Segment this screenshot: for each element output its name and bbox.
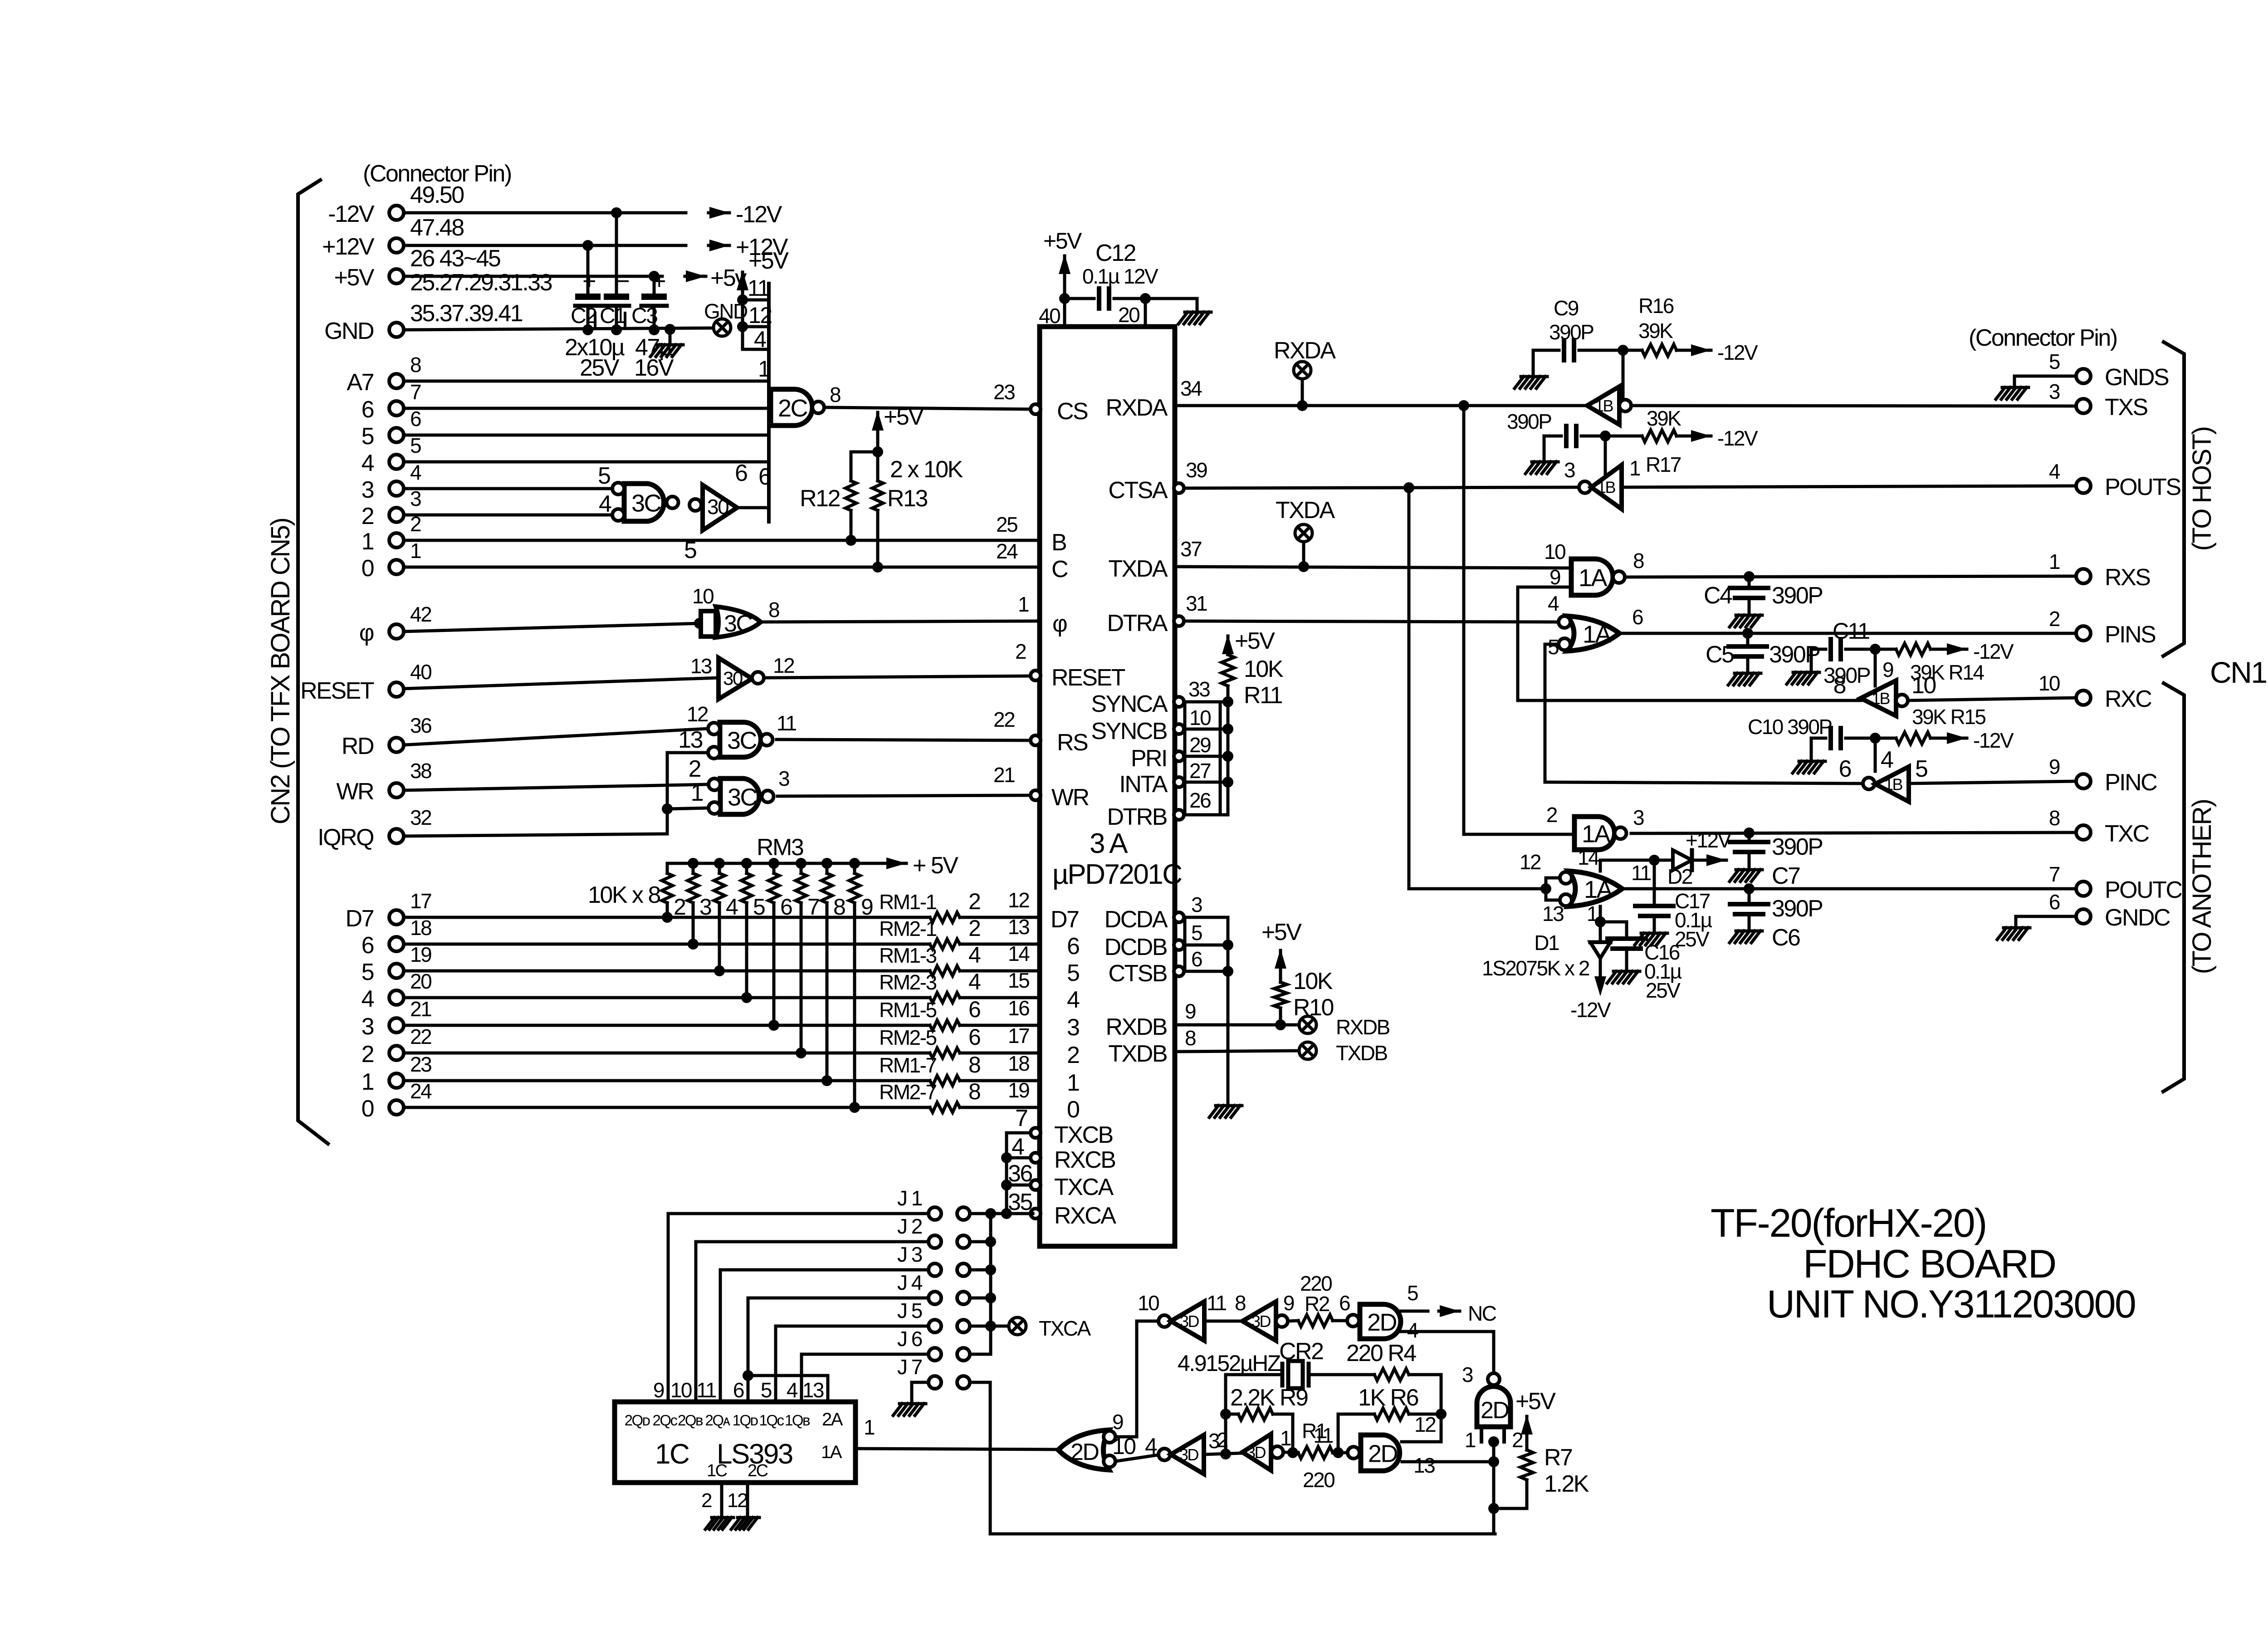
svg-text:220 R4: 220 R4 — [1346, 1340, 1416, 1366]
svg-text:2Qʙ: 2Qʙ — [678, 1412, 703, 1429]
svg-text:2Qᴅ: 2Qᴅ — [625, 1412, 650, 1429]
svg-text:R17: R17 — [1646, 453, 1681, 476]
svg-text:RM2-5: RM2-5 — [879, 1026, 936, 1049]
svg-text:7: 7 — [2049, 862, 2060, 886]
svg-text:220: 220 — [1303, 1468, 1334, 1492]
capacitor C1 — [615, 213, 618, 294]
junction RM3 pin2 / D7 — [662, 912, 673, 923]
svg-text:+5V: +5V — [1261, 919, 1302, 945]
junction C6/POUTC — [1744, 883, 1755, 894]
svg-text:J 5: J 5 — [897, 1299, 922, 1322]
capacitor C9 — [1564, 340, 1574, 360]
wire R13 to C — [876, 510, 880, 567]
svg-text:2: 2 — [1546, 803, 1557, 827]
junction R11 pin — [1222, 777, 1233, 788]
terminal CN2 A7 — [389, 374, 404, 388]
svg-text:19: 19 — [410, 943, 431, 966]
terminal CN2 6 — [389, 937, 404, 951]
wire CTSB — [1184, 970, 1228, 973]
wire RM1-5 to uPD7201C — [960, 1024, 1040, 1027]
svg-text:FDHC BOARD: FDHC BOARD — [1803, 1241, 2056, 1286]
wire CS from 2C to uPD7201C — [827, 407, 1033, 409]
terminal CN1 GNDS — [2076, 369, 2091, 383]
svg-text:31: 31 — [1186, 592, 1207, 615]
wire DTRB — [1184, 813, 1228, 817]
junction R11 pin — [1222, 751, 1233, 762]
svg-text:42: 42 — [410, 602, 431, 626]
svg-text:+12V: +12V — [1686, 828, 1732, 852]
svg-text:+12V: +12V — [322, 234, 375, 260]
wire pin1 — [1599, 906, 1602, 922]
svg-text:RXCA: RXCA — [1054, 1203, 1116, 1229]
wire to R12 — [851, 452, 878, 481]
wire to C16 — [1600, 922, 1627, 939]
svg-text:-12V: -12V — [328, 201, 375, 227]
svg-text:1Qʙ: 1Qʙ — [785, 1412, 810, 1429]
svg-text:6: 6 — [735, 460, 747, 486]
terminal CN1 PINS — [2076, 626, 2091, 641]
svg-text:1B: 1B — [1884, 775, 1903, 794]
wire gate WR pin1 tap — [667, 808, 709, 809]
arrow +12V — [709, 244, 729, 247]
junction J bus — [985, 1321, 996, 1332]
nor gate 1A (PINS) — [1567, 616, 1619, 651]
pin box 26 — [1185, 782, 1220, 815]
pin bubble uPD7201C right — [1174, 483, 1184, 493]
junction R11 pin — [1222, 724, 1233, 734]
svg-text:2: 2 — [1512, 1428, 1523, 1452]
svg-text:C5: C5 — [1706, 641, 1734, 668]
wire R9 to 3D out — [1273, 1414, 1293, 1453]
nand gate 2D (osc) — [1348, 1447, 1359, 1459]
svg-text:1: 1 — [691, 780, 703, 806]
svg-text:390P: 390P — [1772, 583, 1822, 609]
arrow -12V R14 — [1946, 648, 1967, 651]
svg-text:-12V: -12V — [1973, 640, 2014, 663]
svg-text:4: 4 — [1548, 592, 1559, 615]
svg-text:21: 21 — [993, 763, 1015, 787]
junction C5/PINS — [1742, 628, 1753, 639]
inverter 1B (POUTS) — [1579, 481, 1591, 493]
arrow -12V R16 — [1690, 349, 1711, 352]
svg-text:3D: 3D — [1180, 1312, 1199, 1331]
junction J1 bus — [985, 1208, 996, 1219]
wire PINS — [1619, 632, 2077, 635]
svg-text:6: 6 — [758, 464, 771, 490]
svg-text:2: 2 — [2049, 607, 2060, 631]
svg-text:33: 33 — [1188, 677, 1210, 701]
svg-text:18: 18 — [410, 916, 431, 940]
svg-text:47.48: 47.48 — [410, 215, 464, 241]
wire C11 to ground — [1810, 649, 1813, 671]
svg-text:TXCA: TXCA — [1039, 1317, 1091, 1340]
svg-text:21: 21 — [410, 997, 431, 1021]
svg-text:RESET: RESET — [300, 678, 374, 704]
svg-text:RM1-7: RM1-7 — [879, 1053, 936, 1077]
svg-text:6: 6 — [362, 397, 374, 423]
wire 2D out down — [1492, 1442, 1496, 1534]
svg-text:40: 40 — [410, 660, 431, 684]
wire CTSA to POUTC gate — [1409, 488, 1546, 889]
svg-text:+5V: +5V — [1043, 228, 1082, 254]
svg-text:4.9152µHZ: 4.9152µHZ — [1178, 1351, 1281, 1376]
svg-text:1: 1 — [362, 529, 374, 555]
wire 2Qa to J4 — [748, 1298, 929, 1402]
wire RM1-3 to uPD7201C — [960, 969, 1040, 973]
svg-text:3C: 3C — [724, 611, 752, 637]
svg-text:-12V: -12V — [1717, 426, 1758, 450]
svg-text:8: 8 — [768, 598, 779, 622]
pin bubble uPD7201C left — [1031, 1153, 1041, 1163]
ground GNDC — [1997, 928, 2030, 940]
terminal CN2 RESET — [389, 682, 404, 697]
wire pin14 to D2 — [1600, 860, 1673, 871]
nand gate 3C (WR) — [720, 778, 759, 814]
wire TXDA — [1176, 567, 1571, 568]
junction J bus — [985, 1264, 996, 1275]
pin bubble uPD7201C right — [1174, 616, 1184, 626]
junction C10/R15 — [1870, 733, 1881, 744]
resistor R4 220 — [1374, 1369, 1409, 1381]
svg-text:+5V: +5V — [1515, 1388, 1556, 1415]
junction RM3 bus pin3 — [688, 858, 699, 869]
resistor RM2-5 — [930, 1048, 960, 1058]
svg-text:39K: 39K — [1638, 319, 1673, 343]
wire A4 to bus — [404, 460, 769, 464]
wire RM1-1 to uPD7201C — [960, 916, 1040, 919]
wire gate pin13 — [1402, 1460, 1494, 1464]
junction GND/earth — [665, 324, 675, 335]
svg-text:390P: 390P — [1507, 410, 1551, 433]
pin bubble uPD7201C left — [1031, 1180, 1041, 1190]
svg-text:3 A: 3 A — [1090, 828, 1128, 859]
wire pin 11 stub — [743, 299, 769, 302]
svg-text:12: 12 — [1520, 850, 1541, 874]
wire +12V rail — [404, 244, 686, 247]
wire DCDA chain to ground — [1184, 917, 1228, 1103]
terminal CN2 -12V — [389, 206, 404, 220]
svg-text:C3: C3 — [631, 304, 657, 328]
svg-text:1C: 1C — [707, 1461, 727, 1480]
wire J6 to bus — [970, 1353, 991, 1356]
arrow -12V — [709, 211, 729, 215]
terminal CN2 2 — [389, 508, 404, 522]
wire TXDA indicator stem — [1302, 542, 1305, 567]
indicator RXDB — [1299, 1016, 1316, 1033]
junction R13/C — [872, 562, 883, 573]
svg-text:C11: C11 — [1833, 618, 1869, 644]
svg-text:25: 25 — [996, 513, 1017, 536]
wire 6 line — [404, 943, 930, 946]
terminal CN2 2 — [389, 1046, 404, 1060]
wire TXS — [1631, 406, 2076, 406]
svg-text:30: 30 — [707, 495, 728, 519]
indicator TXDA — [1295, 524, 1312, 542]
svg-text:6: 6 — [968, 997, 980, 1022]
svg-text:11: 11 — [1207, 1291, 1227, 1315]
svg-text:−: − — [616, 268, 629, 294]
terminal CN2 GND — [389, 323, 404, 337]
svg-text:CS: CS — [1057, 398, 1088, 425]
IC 1C LS393 body — [615, 1402, 855, 1483]
nand gate 1A (RXS) — [1571, 559, 1613, 595]
svg-text:2C: 2C — [778, 395, 807, 422]
indicator TXDB — [1299, 1042, 1316, 1059]
terminal CN1 POUTC — [2076, 881, 2091, 896]
resistor R12 — [846, 481, 856, 510]
svg-text:26: 26 — [1189, 788, 1211, 812]
inverter 1B (PINC) — [1863, 778, 1875, 789]
wire R12 to B — [850, 510, 853, 540]
svg-text:2: 2 — [689, 756, 701, 782]
svg-text:-12V: -12V — [1570, 998, 1611, 1022]
svg-text:5: 5 — [2049, 350, 2060, 373]
junction C11/R14 — [1870, 644, 1881, 655]
jumper J4 pad B — [957, 1292, 970, 1304]
capacitor C3 — [653, 276, 656, 294]
svg-text:10: 10 — [1911, 672, 1936, 699]
svg-text:TXC: TXC — [2105, 821, 2149, 847]
svg-text:10K: 10K — [1293, 968, 1333, 994]
svg-text:20: 20 — [1118, 303, 1139, 327]
junction IQRQ/WR gate — [662, 803, 673, 814]
svg-text:9: 9 — [1112, 1410, 1123, 1434]
wire POUTC input bracket — [1545, 878, 1548, 900]
svg-text:9: 9 — [653, 1378, 664, 1402]
ground C12 — [1178, 312, 1211, 324]
junction DCDB — [1222, 940, 1233, 950]
terminal CN2 WR — [389, 783, 404, 798]
wire R6 left — [1338, 1414, 1374, 1453]
wire node A vertical — [1224, 1375, 1227, 1454]
svg-text:C2: C2 — [571, 304, 596, 328]
svg-text:39K R15: 39K R15 — [1912, 705, 1985, 729]
ground DCDA chain — [1209, 1106, 1242, 1117]
svg-text:DCDA: DCDA — [1105, 906, 1168, 933]
wire pin4 to gate 2D — [1401, 1332, 1494, 1373]
pin bubble uPD7201C right — [1174, 777, 1184, 787]
svg-text:C9: C9 — [1554, 296, 1579, 320]
svg-text:µPD7201C: µPD7201C — [1052, 859, 1182, 890]
resistor R17 39K — [1642, 430, 1677, 442]
svg-text:R12: R12 — [800, 485, 840, 512]
svg-text:TXDB: TXDB — [1108, 1041, 1167, 1067]
svg-text:RXDB: RXDB — [1336, 1015, 1390, 1039]
junction node B / R6 — [1436, 1409, 1447, 1420]
junction pin13 wire — [1488, 1456, 1499, 1467]
svg-text:390P: 390P — [1772, 896, 1822, 922]
wire pin 12 stub — [743, 325, 769, 328]
svg-text:(TO ANOTHER): (TO ANOTHER) — [2187, 800, 2217, 974]
svg-text:6: 6 — [410, 407, 421, 431]
svg-text:3: 3 — [362, 1014, 374, 1040]
nand gate 2D (R7 driver) — [1488, 1373, 1500, 1385]
wire R16 node to 1B — [1622, 350, 1625, 397]
svg-text:17: 17 — [1008, 1024, 1029, 1048]
arrow +5V — [685, 275, 706, 278]
resistor RM3-4 10K — [718, 863, 721, 873]
svg-text:34: 34 — [1180, 377, 1202, 400]
svg-text:1A: 1A — [1584, 876, 1613, 903]
resistor R9 2.2K — [1238, 1408, 1273, 1420]
jumper J5 pad B — [957, 1320, 970, 1332]
svg-text:C12: C12 — [1095, 240, 1135, 266]
wire J pad to bus — [970, 1297, 991, 1300]
wire 3D to R2 — [1288, 1321, 1298, 1321]
svg-text:NC: NC — [1468, 1302, 1496, 1325]
svg-text:30: 30 — [723, 668, 743, 689]
wire 2 line — [404, 1052, 930, 1055]
svg-text:39K: 39K — [1647, 406, 1681, 430]
svg-text:2: 2 — [701, 1489, 712, 1512]
terminal CN2 phi — [389, 624, 404, 639]
svg-text:3: 3 — [1191, 893, 1202, 916]
jumper J3 pad A — [929, 1263, 941, 1276]
resistor R7 1.2K — [1520, 1450, 1533, 1480]
svg-text:8: 8 — [410, 353, 421, 377]
svg-text:10: 10 — [2038, 671, 2060, 695]
svg-text:7: 7 — [410, 380, 421, 404]
wire RESET buffer to uPD7201C pin 2 — [764, 676, 1033, 678]
pin bubble uPD7201C right — [1174, 966, 1184, 976]
pin bubble uPD7201C right — [1174, 940, 1184, 950]
svg-text:CTSA: CTSA — [1108, 477, 1168, 504]
svg-text:+ 5V: + 5V — [913, 852, 958, 879]
junction RXDA / TXC gate — [1458, 400, 1469, 411]
svg-text:32: 32 — [410, 806, 431, 829]
svg-text:1.2K: 1.2K — [1544, 1471, 1589, 1497]
jumper J4 pad A — [929, 1292, 941, 1304]
jumper J5 pad A — [929, 1320, 941, 1332]
svg-text:RM2-1: RM2-1 — [879, 917, 936, 940]
resistor RM3-7 10K — [800, 863, 803, 873]
svg-text:1: 1 — [410, 539, 421, 563]
wire 2D pin10 to 3D out — [1115, 1455, 1158, 1461]
pin box 27 — [1185, 756, 1220, 782]
svg-text:-12V: -12V — [1717, 341, 1758, 364]
svg-text:26 43~45: 26 43~45 — [410, 245, 500, 272]
wire C8 left — [1544, 435, 1561, 438]
svg-text:TXS: TXS — [2105, 394, 2147, 421]
svg-text:14: 14 — [1008, 942, 1030, 965]
svg-text:J 2: J 2 — [897, 1214, 922, 1238]
pin bubble uPD7201C left — [1031, 404, 1041, 414]
terminal CN2 6 — [389, 401, 404, 416]
wire PINC to pin5 — [1545, 782, 1863, 783]
junction R7 return — [1488, 1503, 1499, 1514]
svg-text:J 6: J 6 — [897, 1327, 922, 1351]
svg-text:23: 23 — [993, 380, 1015, 404]
junction RM3 pin7 / D2 — [796, 1048, 807, 1058]
svg-text:5: 5 — [684, 537, 696, 563]
svg-text:GND: GND — [324, 318, 374, 344]
svg-text:9: 9 — [1185, 999, 1196, 1023]
svg-text:1: 1 — [1465, 1428, 1476, 1452]
wire 3D to R1 — [1283, 1452, 1298, 1453]
wire SYNCA — [1184, 700, 1228, 704]
svg-text:3: 3 — [778, 767, 789, 790]
svg-text:37: 37 — [1180, 537, 1202, 561]
pin stubs gate 2D — [1481, 1427, 1504, 1442]
svg-text:INTA: INTA — [1119, 771, 1168, 798]
svg-text:2D: 2D — [1481, 1397, 1509, 1424]
junction C9/R16 — [1618, 345, 1628, 356]
svg-text:1S2075K x 2: 1S2075K x 2 — [1482, 956, 1589, 980]
junction +12V/C2 — [582, 240, 593, 251]
svg-text:4: 4 — [410, 460, 421, 484]
svg-text:2: 2 — [362, 1041, 374, 1067]
svg-text:1: 1 — [1067, 1070, 1079, 1096]
wire phi gate to uPD7201C pin 1 — [761, 621, 1040, 622]
svg-text:10: 10 — [1138, 1291, 1159, 1315]
svg-text:4: 4 — [599, 491, 611, 517]
wire TXDB — [1176, 1051, 1299, 1052]
wire R10 to RXDB — [1279, 1008, 1282, 1025]
svg-text:23: 23 — [410, 1053, 431, 1076]
junction R9 out — [1287, 1447, 1298, 1458]
svg-text:2D: 2D — [1070, 1439, 1099, 1465]
svg-text:6: 6 — [1339, 1291, 1350, 1315]
resistor R11 10K — [1222, 655, 1234, 686]
svg-text:GNDC: GNDC — [2105, 905, 2170, 931]
terminal CN2 IQRQ — [389, 829, 404, 843]
svg-text:2Qᴀ: 2Qᴀ — [705, 1412, 731, 1429]
resistor RM2-1 — [930, 939, 960, 949]
svg-text:1: 1 — [1629, 456, 1640, 480]
svg-text:11: 11 — [748, 275, 769, 301]
svg-text:8: 8 — [1185, 1026, 1196, 1050]
terminal CN1 RXC — [2076, 690, 2091, 705]
svg-text:B: B — [1051, 529, 1066, 556]
wire DTRA — [1184, 621, 1561, 622]
junction RM3 bus pin9 — [849, 858, 860, 869]
terminal CN2 5 — [389, 964, 404, 978]
terminal CN2 D7 — [389, 910, 404, 925]
svg-text:390P: 390P — [1823, 664, 1870, 688]
capacitor C4 — [1730, 588, 1768, 598]
svg-text:17: 17 — [410, 889, 431, 913]
svg-text:4: 4 — [1881, 747, 1893, 773]
junction RM3 pin4 / D5 — [714, 965, 725, 976]
power +5V arrow R10 — [1275, 949, 1286, 969]
wire R15 node to 1B — [1874, 738, 1877, 771]
wire RXDA to TXC gate pin2 — [1464, 406, 1574, 834]
junction RM3 pin5 / D4 — [741, 992, 752, 1003]
svg-text:1B: 1B — [1597, 478, 1616, 497]
arrow +5V RM3 — [885, 862, 906, 865]
arrow NC — [1439, 1310, 1460, 1313]
svg-text:11: 11 — [1313, 1424, 1333, 1447]
power +5V arrow R11 — [1222, 634, 1234, 654]
junction J bus — [985, 1293, 996, 1303]
svg-text:RM1-3: RM1-3 — [879, 944, 936, 967]
wire C11 to R14 — [1846, 648, 1896, 651]
svg-text:25V: 25V — [1646, 979, 1681, 1002]
ground C6 — [1730, 931, 1762, 943]
svg-text:1A: 1A — [1579, 564, 1608, 592]
terminal CN2 0 — [389, 1100, 404, 1115]
svg-text:4: 4 — [1012, 1134, 1024, 1160]
capacitor C10 — [1831, 728, 1841, 748]
wire R14 node to 1B — [1874, 649, 1877, 686]
svg-text:(TO HOST): (TO HOST) — [2187, 427, 2217, 551]
junction RM3 bus pin7 — [796, 858, 807, 869]
buffer 3D (A decode) — [689, 499, 701, 511]
svg-text:22: 22 — [993, 708, 1015, 731]
svg-text:WR: WR — [336, 778, 374, 805]
svg-text:1Qᴄ: 1Qᴄ — [759, 1412, 784, 1429]
svg-text:3C: 3C — [728, 784, 757, 811]
